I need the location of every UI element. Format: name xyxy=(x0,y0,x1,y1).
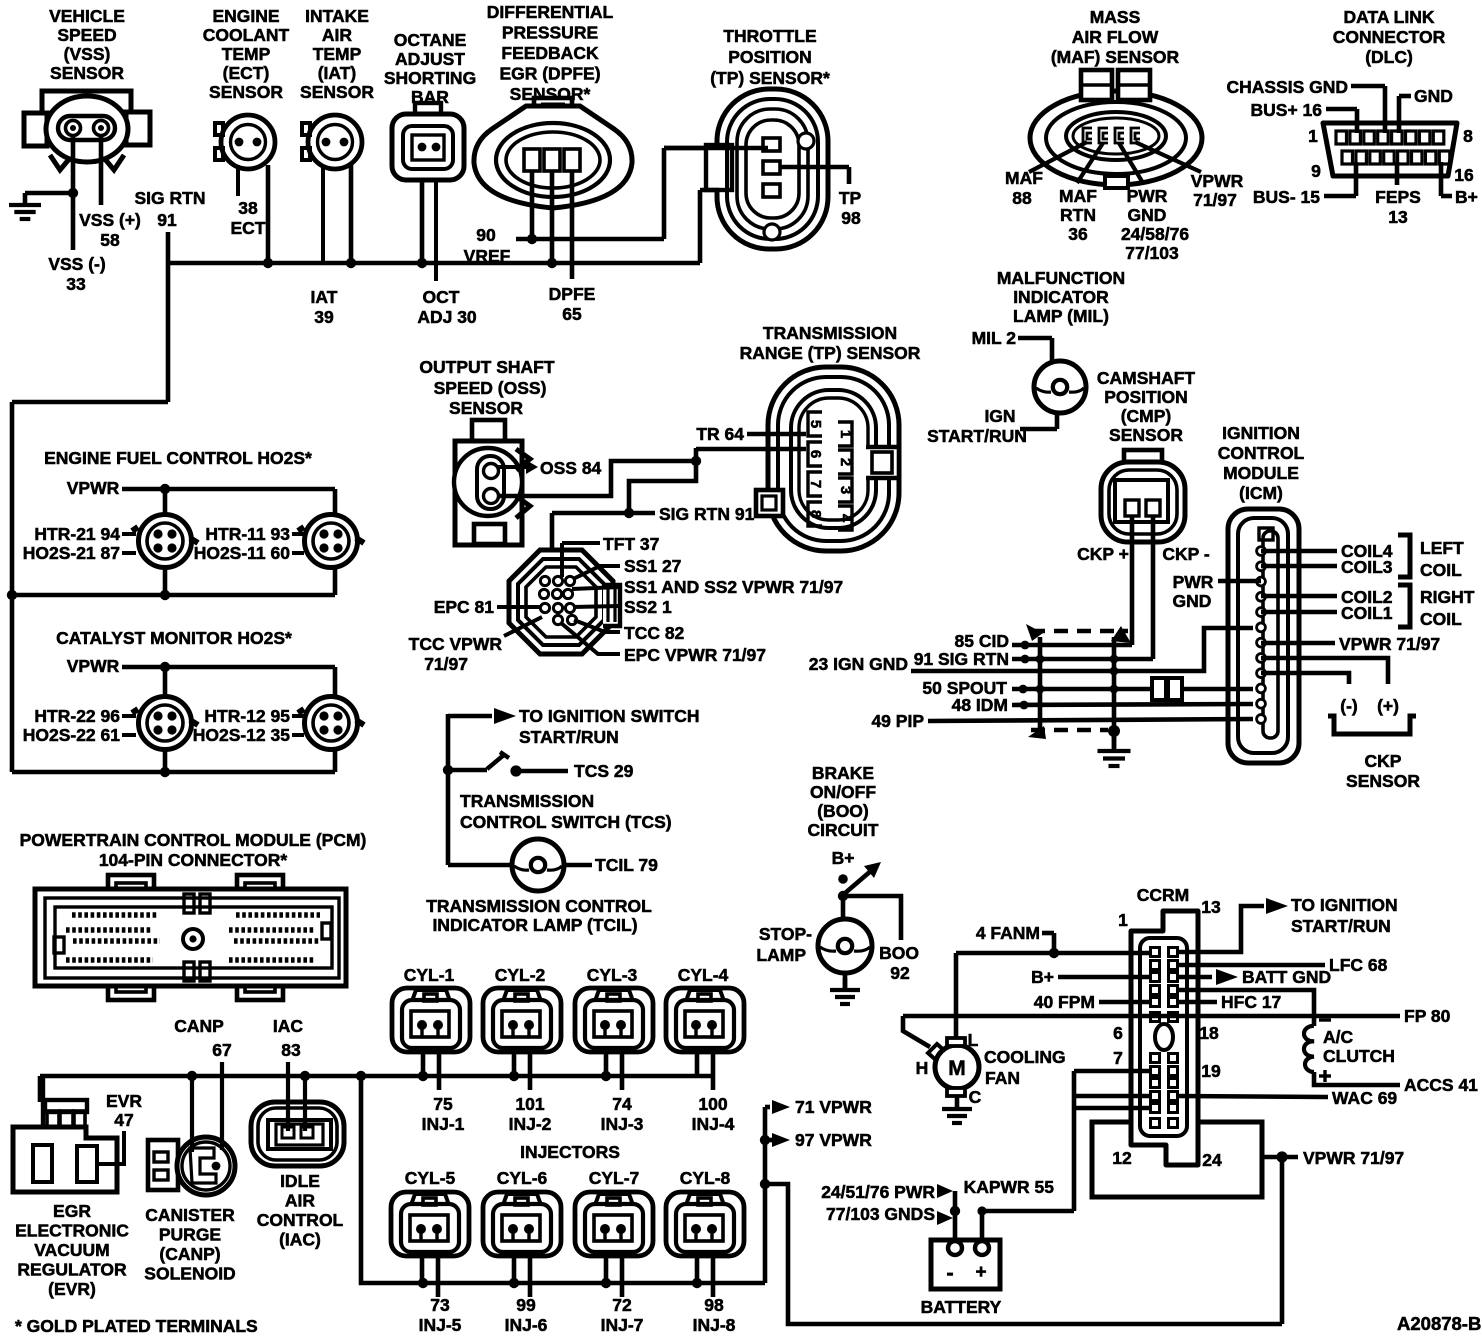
svg-text:SS1 AND SS2 VPWR 71/97: SS1 AND SS2 VPWR 71/97 xyxy=(624,577,843,597)
svg-text:RTN: RTN xyxy=(1060,205,1096,225)
svg-text:M: M xyxy=(948,1057,966,1080)
svg-text:INJ-7: INJ-7 xyxy=(601,1315,644,1335)
svg-text:CAMSHAFT: CAMSHAFT xyxy=(1097,368,1195,388)
svg-text:72: 72 xyxy=(612,1295,632,1315)
svg-text:AIR: AIR xyxy=(285,1191,316,1211)
svg-text:CIRCUIT: CIRCUIT xyxy=(808,820,879,840)
svg-text:47: 47 xyxy=(114,1110,133,1130)
svg-text:TRANSMISSION: TRANSMISSION xyxy=(460,791,594,811)
svg-text:HTR-12 95: HTR-12 95 xyxy=(204,706,290,726)
svg-text:PWR: PWR xyxy=(1127,186,1168,206)
svg-text:START/RUN: START/RUN xyxy=(927,426,1027,446)
svg-text:ENGINE FUEL CONTROL HO2S*: ENGINE FUEL CONTROL HO2S* xyxy=(44,448,312,468)
svg-text:HO2S-12 35: HO2S-12 35 xyxy=(193,725,291,745)
svg-text:OCT: OCT xyxy=(423,287,460,307)
svg-text:CANISTER: CANISTER xyxy=(145,1205,235,1225)
svg-text:98: 98 xyxy=(841,208,861,228)
svg-text:HO2S-11 60: HO2S-11 60 xyxy=(194,543,291,563)
svg-text:49 PIP: 49 PIP xyxy=(871,711,924,731)
svg-text:71 VPWR: 71 VPWR xyxy=(795,1097,872,1117)
svg-text:HO2S-21 87: HO2S-21 87 xyxy=(23,543,120,563)
svg-text:HTR-22 96: HTR-22 96 xyxy=(34,706,120,726)
svg-text:START/RUN: START/RUN xyxy=(1291,916,1391,936)
svg-text:CONTROL: CONTROL xyxy=(1218,443,1305,463)
svg-text:A20878-B: A20878-B xyxy=(1397,1313,1481,1334)
svg-text:(-): (-) xyxy=(1340,696,1357,716)
svg-text:ACCS 41: ACCS 41 xyxy=(1404,1075,1478,1095)
svg-text:BUS- 15: BUS- 15 xyxy=(1253,187,1320,207)
svg-text:SPEED: SPEED xyxy=(57,25,116,45)
svg-text:ENGINE: ENGINE xyxy=(212,6,279,26)
svg-text:AIR: AIR xyxy=(322,25,353,45)
svg-text:TCS 29: TCS 29 xyxy=(574,761,634,781)
svg-text:FP 80: FP 80 xyxy=(1404,1006,1451,1026)
svg-text:CKP +: CKP + xyxy=(1077,544,1129,564)
svg-text:58: 58 xyxy=(100,230,120,250)
svg-text:B+: B+ xyxy=(1031,967,1054,987)
svg-text:SENSOR: SENSOR xyxy=(300,82,374,102)
svg-text:GND: GND xyxy=(1128,205,1167,225)
svg-text:TR 64: TR 64 xyxy=(696,424,744,444)
svg-text:INTAKE: INTAKE xyxy=(305,6,369,26)
svg-text:INJ-1: INJ-1 xyxy=(422,1114,465,1134)
svg-text:KAPWR 55: KAPWR 55 xyxy=(964,1177,1055,1197)
svg-text:8: 8 xyxy=(1463,126,1473,146)
svg-text:OCTANE: OCTANE xyxy=(394,30,467,50)
svg-text:IDLE: IDLE xyxy=(280,1171,320,1191)
svg-text:CYL-1: CYL-1 xyxy=(404,965,455,985)
svg-text:INDICATOR LAMP (TCIL): INDICATOR LAMP (TCIL) xyxy=(432,915,637,935)
svg-text:HTR-21 94: HTR-21 94 xyxy=(34,524,120,544)
svg-text:TO IGNITION SWITCH: TO IGNITION SWITCH xyxy=(519,706,700,726)
svg-text:CCRM: CCRM xyxy=(1137,885,1190,905)
svg-text:91 SIG RTN: 91 SIG RTN xyxy=(914,649,1009,669)
svg-text:(CMP): (CMP) xyxy=(1121,406,1172,426)
svg-text:40 FPM: 40 FPM xyxy=(1034,992,1095,1012)
svg-text:HTR-11 93: HTR-11 93 xyxy=(205,524,290,544)
svg-text:92: 92 xyxy=(890,963,910,983)
svg-text:INJ-4: INJ-4 xyxy=(692,1114,735,1134)
svg-text:LFC 68: LFC 68 xyxy=(1329,955,1388,975)
svg-text:LAMP (MIL): LAMP (MIL) xyxy=(1013,306,1109,326)
svg-text:TCC 82: TCC 82 xyxy=(624,623,685,643)
svg-text:+: + xyxy=(975,1262,986,1283)
svg-text:36: 36 xyxy=(1068,224,1088,244)
svg-text:SPEED (OSS): SPEED (OSS) xyxy=(434,378,547,398)
svg-text:FEEDBACK: FEEDBACK xyxy=(501,43,599,63)
svg-text:TRANSMISSION CONTROL: TRANSMISSION CONTROL xyxy=(426,896,652,916)
svg-text:INJ-2: INJ-2 xyxy=(509,1114,552,1134)
svg-text:WAC 69: WAC 69 xyxy=(1332,1088,1397,1108)
svg-text:13: 13 xyxy=(1388,207,1408,227)
svg-text:RIGHT: RIGHT xyxy=(1420,587,1475,607)
svg-text:OUTPUT SHAFT: OUTPUT SHAFT xyxy=(419,357,554,377)
svg-text:IAC: IAC xyxy=(273,1016,304,1036)
svg-text:3: 3 xyxy=(837,486,854,494)
svg-text:COOLANT: COOLANT xyxy=(203,25,290,45)
svg-text:B+: B+ xyxy=(832,848,855,868)
svg-text:EPC 81: EPC 81 xyxy=(434,597,495,617)
svg-text:71/97: 71/97 xyxy=(1193,190,1237,210)
svg-text:33: 33 xyxy=(66,274,86,294)
svg-text:PRESSURE: PRESSURE xyxy=(502,23,598,43)
svg-text:INJ-5: INJ-5 xyxy=(419,1315,462,1335)
svg-text:CONTROL: CONTROL xyxy=(257,1210,344,1230)
svg-text:(CANP): (CANP) xyxy=(159,1244,220,1264)
svg-text:VACUUM: VACUUM xyxy=(34,1240,110,1260)
svg-text:REGULATOR: REGULATOR xyxy=(17,1260,127,1280)
svg-text:1: 1 xyxy=(837,430,854,438)
svg-text:104-PIN CONNECTOR*: 104-PIN CONNECTOR* xyxy=(99,850,288,870)
svg-text:CYL-3: CYL-3 xyxy=(587,965,638,985)
svg-text:GND: GND xyxy=(1173,591,1212,611)
svg-text:97 VPWR: 97 VPWR xyxy=(795,1130,872,1150)
svg-text:VREF: VREF xyxy=(464,246,511,266)
svg-text:DIFFERENTIAL: DIFFERENTIAL xyxy=(487,2,614,22)
svg-text:VSS (+): VSS (+) xyxy=(79,210,141,230)
svg-text:83: 83 xyxy=(281,1040,301,1060)
svg-text:MAF: MAF xyxy=(1005,168,1043,188)
svg-text:IAT: IAT xyxy=(311,287,338,307)
svg-text:MALFUNCTION: MALFUNCTION xyxy=(997,268,1125,288)
svg-text:TCIL 79: TCIL 79 xyxy=(595,855,658,875)
svg-text:CYL-7: CYL-7 xyxy=(589,1168,640,1188)
svg-text:SS1 27: SS1 27 xyxy=(624,556,681,576)
svg-text:IGNITION: IGNITION xyxy=(1222,423,1300,443)
svg-text:BUS+ 16: BUS+ 16 xyxy=(1251,100,1323,120)
svg-text:A/C: A/C xyxy=(1323,1027,1354,1047)
svg-text:INJ-3: INJ-3 xyxy=(601,1114,644,1134)
svg-text:(DLC): (DLC) xyxy=(1365,47,1413,67)
svg-text:8: 8 xyxy=(807,510,824,518)
svg-text:(MAF) SENSOR: (MAF) SENSOR xyxy=(1051,47,1180,67)
svg-text:BOO: BOO xyxy=(879,943,919,963)
svg-text:77/103 GNDS: 77/103 GNDS xyxy=(826,1204,935,1224)
svg-text:SOLENOID: SOLENOID xyxy=(144,1264,235,1284)
svg-text:IGN: IGN xyxy=(984,406,1015,426)
svg-text:CKP: CKP xyxy=(1365,751,1402,771)
svg-text:(EVR): (EVR) xyxy=(48,1279,96,1299)
svg-text:100: 100 xyxy=(698,1094,727,1114)
svg-text:POSITION: POSITION xyxy=(728,47,812,67)
svg-text:(VSS): (VSS) xyxy=(64,44,111,64)
svg-text:38: 38 xyxy=(238,198,258,218)
svg-text:(BOO): (BOO) xyxy=(817,801,869,821)
svg-text:POWERTRAIN CONTROL MODULE (PCM: POWERTRAIN CONTROL MODULE (PCM) xyxy=(20,830,367,850)
svg-text:(IAT): (IAT) xyxy=(318,63,357,83)
svg-text:B+: B+ xyxy=(1455,187,1478,207)
svg-text:4: 4 xyxy=(837,514,854,523)
svg-text:TP: TP xyxy=(839,188,862,208)
svg-text:GND: GND xyxy=(1414,86,1453,106)
svg-text:ECT: ECT xyxy=(231,218,266,238)
svg-text:EGR: EGR xyxy=(53,1201,91,1221)
svg-text:SENSOR: SENSOR xyxy=(1109,425,1183,445)
svg-text:13: 13 xyxy=(1201,897,1221,917)
svg-text:SIG RTN: SIG RTN xyxy=(135,188,206,208)
svg-text:MAF: MAF xyxy=(1059,186,1097,206)
svg-text:COOLING: COOLING xyxy=(984,1047,1066,1067)
svg-text:VPWR: VPWR xyxy=(1191,171,1244,191)
svg-text:SENSOR: SENSOR xyxy=(1346,771,1420,791)
svg-text:STOP-: STOP- xyxy=(759,924,812,944)
svg-text:67: 67 xyxy=(212,1040,231,1060)
svg-text:PWR: PWR xyxy=(1173,572,1214,592)
svg-text:INJ-6: INJ-6 xyxy=(505,1315,548,1335)
svg-text:COIL: COIL xyxy=(1420,609,1462,629)
svg-text:VPWR: VPWR xyxy=(67,478,120,498)
svg-text:CANP: CANP xyxy=(174,1016,224,1036)
svg-text:MIL 2: MIL 2 xyxy=(972,328,1017,348)
svg-text:48 IDM: 48 IDM xyxy=(952,695,1008,715)
svg-text:ADJ 30: ADJ 30 xyxy=(417,307,477,327)
svg-text:74: 74 xyxy=(612,1094,632,1114)
svg-text:12: 12 xyxy=(1112,1148,1132,1168)
svg-text:CYL-8: CYL-8 xyxy=(680,1168,731,1188)
svg-text:BATT GND: BATT GND xyxy=(1242,967,1331,987)
svg-text:INJ-8: INJ-8 xyxy=(693,1315,736,1335)
svg-text:23 IGN GND: 23 IGN GND xyxy=(809,654,908,674)
svg-text:24: 24 xyxy=(1202,1150,1222,1170)
svg-text:CLUTCH: CLUTCH xyxy=(1323,1046,1395,1066)
svg-text:MASS: MASS xyxy=(1090,7,1141,27)
svg-text:(TP) SENSOR*: (TP) SENSOR* xyxy=(710,68,830,88)
svg-text:COIL: COIL xyxy=(1420,560,1462,580)
svg-text:99: 99 xyxy=(516,1295,536,1315)
svg-text:91: 91 xyxy=(157,210,177,230)
svg-text:6: 6 xyxy=(1113,1023,1123,1043)
svg-text:AIR FLOW: AIR FLOW xyxy=(1072,27,1159,47)
svg-text:SENSOR: SENSOR xyxy=(449,398,523,418)
svg-text:H: H xyxy=(916,1058,929,1078)
svg-text:HO2S-22 61: HO2S-22 61 xyxy=(23,725,121,745)
svg-text:SIG RTN 91: SIG RTN 91 xyxy=(659,504,755,524)
svg-text:24/58/76: 24/58/76 xyxy=(1121,224,1189,244)
svg-text:65: 65 xyxy=(562,304,582,324)
svg-text:98: 98 xyxy=(704,1295,724,1315)
svg-text:TFT 37: TFT 37 xyxy=(603,534,659,554)
svg-text:DATA LINK: DATA LINK xyxy=(1343,7,1434,27)
svg-text:18: 18 xyxy=(1199,1023,1219,1043)
svg-text:L: L xyxy=(968,1030,979,1050)
svg-text:FAN: FAN xyxy=(985,1068,1020,1088)
svg-text:SS2 1: SS2 1 xyxy=(624,597,672,617)
svg-text:SENSOR: SENSOR xyxy=(50,63,124,83)
svg-text:CONTROL SWITCH (TCS): CONTROL SWITCH (TCS) xyxy=(460,812,672,832)
svg-text:6: 6 xyxy=(807,450,824,458)
svg-text:(ECT): (ECT) xyxy=(223,63,270,83)
svg-text:85 CID: 85 CID xyxy=(955,631,1009,651)
svg-text:2: 2 xyxy=(837,458,854,466)
svg-text:HFC 17: HFC 17 xyxy=(1221,992,1281,1012)
svg-text:ELECTRONIC: ELECTRONIC xyxy=(15,1221,129,1241)
svg-text:24/51/76 PWR: 24/51/76 PWR xyxy=(821,1182,935,1202)
svg-text:-: - xyxy=(946,1260,953,1285)
svg-text:88: 88 xyxy=(1012,188,1032,208)
svg-text:COIL3: COIL3 xyxy=(1341,557,1393,577)
svg-text:1: 1 xyxy=(1308,126,1318,146)
svg-text:77/103: 77/103 xyxy=(1125,243,1179,263)
svg-text:CYL-5: CYL-5 xyxy=(405,1168,456,1188)
svg-text:VEHICLE: VEHICLE xyxy=(49,6,125,26)
svg-text:PURGE: PURGE xyxy=(159,1225,221,1245)
svg-text:16: 16 xyxy=(1454,165,1474,185)
svg-text:CYL-4: CYL-4 xyxy=(678,965,729,985)
svg-text:OSS 84: OSS 84 xyxy=(540,458,602,478)
svg-text:* GOLD PLATED TERMINALS: * GOLD PLATED TERMINALS xyxy=(15,1316,258,1336)
svg-text:CHASSIS GND: CHASSIS GND xyxy=(1226,77,1348,97)
svg-text:TEMP: TEMP xyxy=(313,44,362,64)
svg-text:CYL-6: CYL-6 xyxy=(497,1168,548,1188)
svg-text:1: 1 xyxy=(1118,910,1128,930)
svg-text:LEFT: LEFT xyxy=(1420,538,1464,558)
svg-text:VPWR 71/97: VPWR 71/97 xyxy=(1303,1148,1404,1168)
svg-text:CYL-2: CYL-2 xyxy=(495,965,546,985)
svg-text:VPWR 71/97: VPWR 71/97 xyxy=(1339,634,1440,654)
svg-text:9: 9 xyxy=(1311,161,1321,181)
svg-text:INDICATOR: INDICATOR xyxy=(1013,287,1109,307)
svg-text:INJECTORS: INJECTORS xyxy=(520,1142,620,1162)
svg-text:(IAC): (IAC) xyxy=(279,1230,321,1250)
svg-text:TCC VPWR: TCC VPWR xyxy=(409,634,503,654)
svg-text:VPWR: VPWR xyxy=(67,656,120,676)
svg-text:LAMP: LAMP xyxy=(756,945,806,965)
svg-text:CATALYST MONITOR HO2S*: CATALYST MONITOR HO2S* xyxy=(56,628,292,648)
svg-text:90: 90 xyxy=(476,225,496,245)
svg-text:VSS (-): VSS (-) xyxy=(48,254,105,274)
svg-text:TO IGNITION: TO IGNITION xyxy=(1291,895,1398,915)
svg-text:7: 7 xyxy=(807,480,824,488)
svg-text:FEPS: FEPS xyxy=(1375,187,1421,207)
svg-text:C: C xyxy=(969,1087,982,1107)
svg-text:BRAKE: BRAKE xyxy=(812,763,874,783)
svg-text:19: 19 xyxy=(1201,1061,1221,1081)
svg-text:EVR: EVR xyxy=(106,1091,142,1111)
svg-text:ADJUST: ADJUST xyxy=(395,49,465,69)
svg-text:5: 5 xyxy=(807,420,824,428)
svg-text:CONNECTOR: CONNECTOR xyxy=(1333,27,1446,47)
svg-text:TRANSMISSION: TRANSMISSION xyxy=(763,323,897,343)
svg-text:73: 73 xyxy=(430,1295,450,1315)
svg-text:75: 75 xyxy=(433,1094,453,1114)
svg-text:7: 7 xyxy=(1113,1048,1123,1068)
svg-text:POSITION: POSITION xyxy=(1104,387,1188,407)
svg-text:EPC VPWR 71/97: EPC VPWR 71/97 xyxy=(624,645,766,665)
svg-text:4 FANM: 4 FANM xyxy=(976,923,1040,943)
svg-text:CKP -: CKP - xyxy=(1162,544,1209,564)
svg-text:SHORTING: SHORTING xyxy=(384,68,476,88)
svg-text:101: 101 xyxy=(515,1094,544,1114)
svg-text:RANGE (TP) SENSOR: RANGE (TP) SENSOR xyxy=(740,343,921,363)
svg-text:MODULE: MODULE xyxy=(1223,463,1299,483)
svg-text:BATTERY: BATTERY xyxy=(921,1297,1002,1317)
svg-text:SENSOR: SENSOR xyxy=(209,82,283,102)
svg-text:EGR (DPFE): EGR (DPFE) xyxy=(499,64,600,84)
svg-text:THROTTLE: THROTTLE xyxy=(723,26,816,46)
svg-text:71/97: 71/97 xyxy=(424,654,468,674)
svg-text:START/RUN: START/RUN xyxy=(519,727,619,747)
svg-text:COIL1: COIL1 xyxy=(1341,603,1393,623)
svg-text:39: 39 xyxy=(314,307,334,327)
svg-text:DPFE: DPFE xyxy=(549,284,596,304)
svg-text:(ICM): (ICM) xyxy=(1239,483,1283,503)
svg-text:ON/OFF: ON/OFF xyxy=(810,782,876,802)
svg-text:TEMP: TEMP xyxy=(222,44,271,64)
svg-text:(+): (+) xyxy=(1377,696,1399,716)
